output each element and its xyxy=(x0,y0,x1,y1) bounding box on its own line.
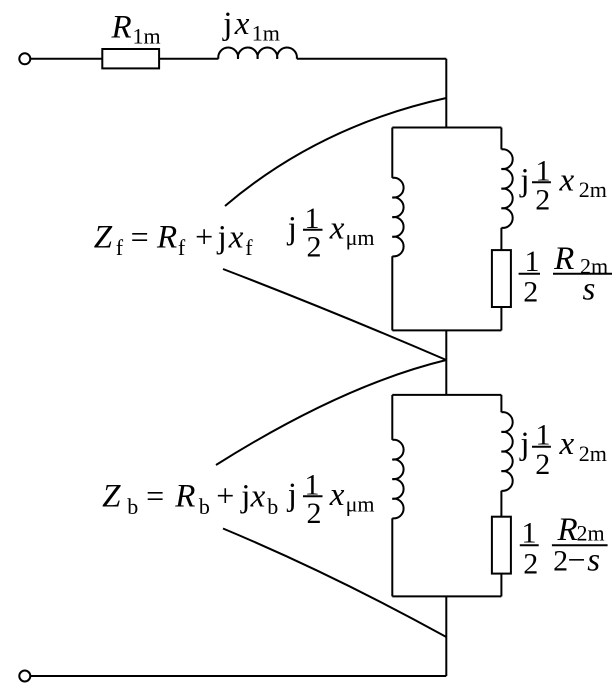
svg-text:Z: Z xyxy=(102,478,121,514)
svg-text:b: b xyxy=(267,494,278,519)
wire resistor to cell bottom lower xyxy=(500,574,502,597)
wire resistor to cell bottom upper xyxy=(500,307,502,330)
wire coil to resistor lower xyxy=(500,491,502,517)
fraction bar R2m/s xyxy=(553,273,612,275)
svg-text:2: 2 xyxy=(307,231,322,264)
svg-text:j: j xyxy=(287,477,297,513)
svg-text:f: f xyxy=(245,235,253,260)
terminal T1 (top input) xyxy=(19,53,30,64)
svg-text:−: − xyxy=(568,541,586,577)
terminal T2 (bottom input) xyxy=(19,671,30,682)
wire node between cells xyxy=(445,330,447,395)
svg-text:=: = xyxy=(131,219,149,255)
fraction bar 1/2 lower resistor xyxy=(520,544,539,546)
svg-text:f: f xyxy=(116,235,124,260)
fraction bar upper-left xyxy=(303,229,323,231)
inductor jx1m xyxy=(218,47,297,58)
svg-text:b: b xyxy=(199,494,210,519)
wire upper-left branch top xyxy=(391,128,393,178)
svg-text:x: x xyxy=(559,163,575,199)
wire lower cell top edge xyxy=(392,394,501,396)
wire upper cell bottom edge xyxy=(392,329,501,331)
inductor j(1/2)x_2m lower xyxy=(501,412,512,491)
fraction bar R2m/(2-s) xyxy=(552,544,608,546)
wire vertical down to bottom rail xyxy=(445,596,447,676)
svg-text:j: j xyxy=(287,211,297,247)
svg-text:x: x xyxy=(234,6,250,42)
svg-text:Z: Z xyxy=(94,220,113,256)
fraction bar 1/2 upper resistor xyxy=(519,273,540,275)
svg-text:2m: 2m xyxy=(579,441,607,466)
svg-text:j: j xyxy=(240,478,250,514)
svg-text:2m: 2m xyxy=(579,177,607,202)
svg-text:b: b xyxy=(127,494,138,519)
svg-text:x: x xyxy=(559,426,575,462)
resistor (1/2)R2m/(2-s) lower xyxy=(492,517,511,574)
wire lower-right branch top xyxy=(500,395,502,412)
wire upper-right branch top xyxy=(500,128,502,150)
svg-text:2: 2 xyxy=(553,544,568,577)
wire vertical down to upper cell xyxy=(445,59,447,128)
inductor j(1/2)x_um lower (magnetizing) xyxy=(392,440,403,519)
brace arc lower-bottom (Zb pointer) xyxy=(223,529,446,638)
svg-text:=: = xyxy=(146,477,164,513)
svg-text:1m: 1m xyxy=(252,20,280,45)
brace arc upper-bottom (Zf pointer) xyxy=(223,269,446,360)
svg-text:μm: μm xyxy=(346,491,375,516)
svg-text:x: x xyxy=(250,478,266,514)
svg-text:R: R xyxy=(156,220,177,256)
svg-text:j: j xyxy=(222,6,232,42)
svg-text:x: x xyxy=(329,211,345,247)
wire upper cell top edge xyxy=(392,127,501,129)
fraction bar lower-left coil label xyxy=(303,495,323,497)
wire bottom horizontal xyxy=(31,675,447,677)
resistor R1m xyxy=(102,49,159,68)
svg-text:+: + xyxy=(216,477,234,513)
wire top-left horizontal xyxy=(31,58,103,60)
svg-text:x: x xyxy=(228,220,244,256)
svg-text:+: + xyxy=(195,219,213,255)
fraction bar upper-right coil label xyxy=(532,181,551,183)
svg-text:2: 2 xyxy=(535,184,550,217)
svg-text:2: 2 xyxy=(523,275,538,308)
svg-text:x: x xyxy=(329,477,345,513)
svg-text:2: 2 xyxy=(307,497,322,530)
svg-text:j: j xyxy=(519,163,529,199)
svg-text:R: R xyxy=(111,10,132,46)
svg-text:μm: μm xyxy=(346,225,375,250)
svg-text:s: s xyxy=(583,272,596,308)
wire lower-left branch top xyxy=(391,395,393,440)
svg-text:s: s xyxy=(587,542,600,578)
svg-text:R: R xyxy=(174,478,195,514)
svg-text:R: R xyxy=(553,241,574,277)
wire upper-left branch bottom xyxy=(391,256,393,330)
inductor j(1/2)x_um upper (magnetizing) xyxy=(392,178,403,257)
fraction bar lower-right coil label xyxy=(532,446,551,448)
wire lower-left branch bottom xyxy=(391,518,393,596)
svg-text:2: 2 xyxy=(523,547,538,580)
svg-text:1m: 1m xyxy=(133,23,161,48)
svg-text:j: j xyxy=(519,426,529,462)
resistor (1/2)R2m/s upper xyxy=(492,250,511,307)
brace arc upper-top (Zf pointer) xyxy=(225,98,446,206)
wire L1m to corner xyxy=(297,58,447,60)
wire R1m to L1m xyxy=(159,58,218,60)
inductor j(1/2)x_2m upper xyxy=(501,149,512,228)
svg-text:f: f xyxy=(178,235,186,260)
svg-text:j: j xyxy=(217,220,227,256)
wire lower cell bottom edge xyxy=(392,595,501,597)
brace arc lower-top (Zb pointer) xyxy=(216,360,446,465)
svg-text:2: 2 xyxy=(535,448,550,481)
wire coil to resistor upper xyxy=(500,228,502,250)
